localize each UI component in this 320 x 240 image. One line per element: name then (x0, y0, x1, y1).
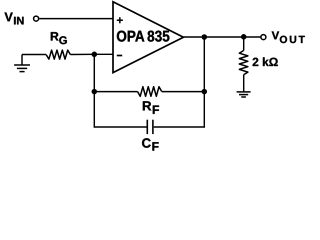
node junction output load (241, 34, 247, 40)
resistor 2k (239, 51, 248, 75)
op-amp U1 OPA835 (113, 2, 183, 73)
wire 2k resistor to ground (243, 75, 245, 92)
node VOUT terminal (261, 35, 266, 40)
node junction output feedback (202, 34, 208, 40)
ground (left) (14, 55, 30, 72)
label VOUT (272, 31, 279, 39)
ground (right) (237, 92, 251, 97)
wire ground to RG (22, 54, 46, 56)
wire CF row right (154, 126, 205, 128)
capacitor CF (147, 120, 153, 134)
label OPA835 (117, 31, 144, 42)
wire RF row left (94, 91, 137, 93)
wire RF row right (162, 91, 205, 93)
pin + (noninverting input marker) (117, 17, 123, 23)
resistor RF (138, 87, 162, 97)
wire op-amp output to VOUT (183, 36, 261, 38)
wire VIN to op-amp + input (39, 18, 113, 20)
wire output node down to feedback (203, 37, 205, 128)
wire inverting node down to feedback (93, 54, 95, 127)
label RG (51, 32, 59, 40)
wire CF row left (94, 126, 146, 128)
label VIN (4, 13, 12, 22)
label CF (142, 138, 151, 147)
resistor RG (46, 50, 70, 59)
node A junction (inverting input) (92, 52, 98, 58)
wire RG to inverting node (70, 53, 94, 55)
wire output node to 2k resistor (243, 37, 245, 51)
wire inverting node to op-amp - input (94, 53, 113, 55)
label RF (143, 101, 151, 110)
label 2 kOhm (253, 57, 278, 66)
node junction RF right (202, 89, 208, 95)
pin - (inverting input marker) (117, 55, 122, 57)
node junction RF left (92, 89, 98, 95)
node VIN terminal (34, 16, 39, 21)
